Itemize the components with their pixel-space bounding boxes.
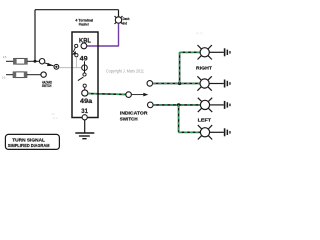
indicator switch blade arrow bbox=[132, 93, 149, 97]
lamp left front bbox=[198, 98, 212, 112]
wire lamp1 to ground bbox=[209, 51, 224, 53]
fuse F16 bbox=[13, 72, 27, 78]
contact small KBL bbox=[75, 44, 78, 47]
lamp right front bbox=[198, 45, 212, 59]
wire 49 to heater bbox=[84, 61, 86, 65]
ground lamp4 bbox=[224, 128, 231, 136]
wire drop to dash indicator lamp bbox=[118, 10, 120, 17]
wire lamp3 to ground bbox=[210, 104, 224, 106]
heater element bbox=[82, 65, 88, 71]
svg-text:Copyright J. Mars 2011: Copyright J. Mars 2011 bbox=[106, 68, 144, 73]
wire gray link relay armature bbox=[76, 57, 78, 68]
fuse F15 lead in bbox=[6, 60, 14, 62]
indicator switch common terminal bbox=[126, 92, 132, 98]
indicator switch right contact bbox=[147, 81, 153, 87]
svg-text:31: 31 bbox=[81, 108, 88, 115]
svg-text:49a: 49a bbox=[80, 98, 93, 105]
wire left branch bottom to lamp4 (green/black) bbox=[179, 131, 200, 133]
svg-text:INDICATOR: INDICATOR bbox=[120, 110, 149, 115]
contact fixed lower bbox=[83, 84, 86, 87]
contact fixed upper bbox=[83, 73, 86, 76]
svg-text:SWITCH: SWITCH bbox=[120, 116, 138, 121]
wire gray link hazard common to flasher heater bbox=[59, 67, 82, 69]
flasher relay U1 box bbox=[72, 32, 98, 118]
svg-text:15: 15 bbox=[3, 55, 7, 59]
wire 31 to ground bbox=[84, 120, 86, 133]
wire left branch horizontal to lamp3 (green/black) bbox=[153, 104, 200, 106]
svg-text:16: 16 bbox=[2, 76, 6, 80]
node junction left branch bbox=[177, 103, 180, 106]
wire right branch vertical (green/black) bbox=[179, 52, 181, 83]
wire lamp4 to ground bbox=[210, 131, 224, 133]
ground lamp3 bbox=[224, 101, 231, 109]
wire right branch top to lamp1 (green/black) bbox=[180, 51, 200, 53]
svg-text:RIGHT: RIGHT bbox=[196, 65, 212, 70]
terminal KBL bbox=[81, 43, 87, 49]
svg-text:49: 49 bbox=[80, 56, 88, 63]
relay blade with arrow bbox=[72, 48, 76, 55]
wire left branch vertical (green/black) bbox=[178, 105, 180, 132]
title block bbox=[5, 134, 59, 149]
wire fuse F16 to hazard switch lower contact bbox=[27, 74, 41, 76]
hazard switch common terminal bbox=[54, 64, 59, 69]
wire top feed from junction to dash indicator bbox=[35, 9, 119, 11]
svg-text:LEFT: LEFT bbox=[198, 117, 212, 122]
contact small lower KBL bbox=[75, 54, 78, 57]
svg-text:SWITCH: SWITCH bbox=[42, 84, 52, 88]
ground lamp1 bbox=[224, 48, 231, 56]
ground main bbox=[75, 133, 94, 139]
hazard switch lower contact bbox=[41, 72, 46, 77]
lamp left rear bbox=[198, 125, 212, 139]
terminal 31 bbox=[82, 115, 87, 120]
hazard switch upper contact bbox=[39, 59, 44, 64]
node junction at feed/fuse bbox=[34, 60, 37, 63]
fuse F15 bbox=[13, 58, 27, 64]
wire fuse F15 to hazard switch bbox=[27, 60, 39, 62]
svg-text:an im: an im bbox=[196, 31, 203, 35]
lamp dash indicator bbox=[115, 16, 123, 24]
wire KBL purple to dash indicator bbox=[87, 23, 119, 46]
contact blade open bbox=[78, 77, 84, 81]
fuse F16 lead in bbox=[6, 74, 13, 76]
wire contact to 49a bbox=[84, 87, 86, 90]
wire left vertical feed down to fuse row bbox=[34, 10, 36, 62]
svg-text:2A: 2A bbox=[52, 112, 55, 116]
lamp right rear bbox=[197, 76, 211, 90]
svg-text:SIMPLIFIED DIAGRAM: SIMPLIFIED DIAGRAM bbox=[8, 143, 50, 148]
svg-text:Flasher: Flasher bbox=[79, 23, 90, 27]
wire lamp2 to ground bbox=[209, 83, 224, 85]
wire right branch horizontal to lamp2 (green/black) bbox=[153, 82, 200, 84]
node junction right branch bbox=[178, 82, 181, 85]
svg-text:Ind: Ind bbox=[123, 21, 128, 25]
indicator switch left contact bbox=[148, 102, 154, 108]
wire 49a to indicator switch (green/black) bbox=[88, 93, 126, 96]
svg-text:ta a: ta a bbox=[53, 116, 58, 120]
hazard switch blade bbox=[44, 63, 53, 66]
terminal 49a bbox=[82, 90, 88, 96]
wire heater to contact bbox=[84, 71, 86, 74]
ground lamp2 bbox=[224, 80, 231, 88]
